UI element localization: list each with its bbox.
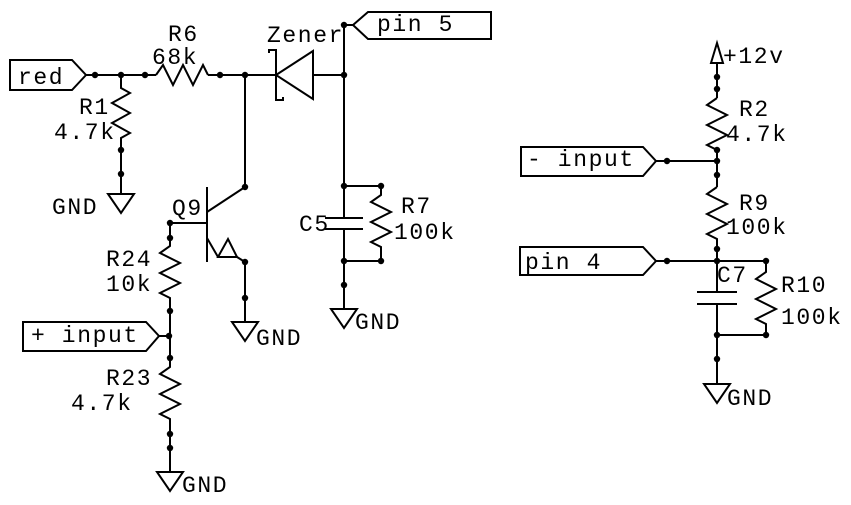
svg-text:GND: GND	[256, 326, 302, 352]
ground Q9 emitter	[232, 322, 302, 352]
node dot pin5 tip	[341, 22, 347, 28]
node junction -input rail	[714, 158, 720, 164]
node dot collector	[242, 184, 248, 190]
svg-text:R23: R23	[106, 366, 152, 392]
wire collector up	[244, 75, 246, 187]
diode zener D1	[267, 23, 344, 100]
svg-text:C7: C7	[717, 263, 748, 289]
wire pin5 rail	[343, 25, 345, 218]
node dot R7 bottom	[378, 258, 384, 264]
flag pin 5	[344, 12, 491, 39]
svg-text:+ input: + input	[31, 323, 139, 349]
power +12v	[711, 43, 785, 98]
ground C5	[331, 309, 401, 336]
node dot R6 left pin	[142, 72, 148, 78]
node junction pin4 rail	[714, 258, 720, 264]
ground R23	[157, 472, 228, 499]
svg-text:R9: R9	[739, 191, 770, 217]
capacitor C7	[697, 263, 748, 384]
resistor R1	[54, 75, 130, 194]
svg-text:4.7k: 4.7k	[54, 120, 116, 146]
wire C7 bottom to R10 bottom	[717, 334, 766, 336]
svg-text:pin 5: pin 5	[377, 12, 454, 38]
svg-text:GND: GND	[182, 473, 228, 499]
node junction R1 top	[118, 72, 124, 78]
node dot base junction	[167, 220, 173, 226]
node junction C5 bottom	[341, 258, 347, 264]
node junction C7 bottom	[714, 332, 720, 338]
svg-text:4.7k: 4.7k	[71, 391, 133, 417]
node dot emitter end	[242, 259, 248, 265]
ground R1	[52, 194, 134, 221]
node dot gnd pin C5	[341, 282, 347, 288]
node dot R10 top	[763, 258, 769, 264]
node junction zener anode	[341, 72, 347, 78]
svg-text:red: red	[18, 65, 64, 91]
svg-text:Q9: Q9	[172, 196, 203, 222]
wire red-to-zener	[86, 74, 276, 76]
svg-text:R1: R1	[79, 95, 110, 121]
node junction C5 top	[341, 183, 347, 189]
svg-text:R2: R2	[739, 97, 770, 123]
node dot gnd pin right	[714, 356, 720, 362]
node dot R6 right pin	[217, 72, 223, 78]
svg-text:100k: 100k	[394, 220, 456, 246]
resistor R9	[707, 187, 788, 292]
resistor R24	[106, 223, 180, 336]
svg-text:4.7k: 4.7k	[726, 122, 788, 148]
svg-text:- input: - input	[527, 147, 635, 173]
node dot R10 bottom	[763, 332, 769, 338]
transistor Q9	[170, 187, 245, 262]
resistor R7	[371, 186, 456, 261]
flag red	[10, 60, 86, 91]
wire emitter to gnd	[244, 262, 246, 322]
svg-text:GND: GND	[727, 386, 773, 412]
svg-text:+12v: +12v	[723, 44, 785, 70]
resistor R6	[152, 22, 208, 85]
resistor R23	[71, 336, 180, 472]
svg-text:100k: 100k	[726, 215, 788, 241]
ground right	[704, 384, 773, 412]
flag + input	[23, 322, 172, 351]
svg-text:R24: R24	[106, 247, 152, 273]
resistor R2	[707, 97, 788, 187]
wire C5 to R7 top	[344, 185, 381, 187]
resistor R10	[756, 261, 843, 335]
capacitor C5	[299, 212, 363, 238]
svg-text:GND: GND	[355, 310, 401, 336]
svg-text:pin 4: pin 4	[525, 250, 602, 276]
svg-text:R7: R7	[401, 194, 432, 220]
flag - input	[521, 147, 717, 176]
wire C5 gnd stub	[343, 229, 345, 309]
node junction zener-collector	[242, 72, 248, 78]
node dot gnd pin Q9	[242, 295, 248, 301]
svg-text:Zener: Zener	[267, 23, 344, 49]
node dot R24 top pin	[167, 235, 173, 241]
svg-text:10k: 10k	[106, 272, 152, 298]
flag pin 4	[520, 247, 766, 276]
wire C5 bottom to R7 bottom	[344, 260, 381, 262]
svg-text:GND: GND	[52, 195, 98, 221]
node dot red pin	[92, 72, 98, 78]
svg-text:100k: 100k	[781, 305, 843, 331]
svg-text:R10: R10	[781, 273, 827, 299]
node dot R7 top	[378, 183, 384, 189]
svg-text:C5: C5	[299, 212, 330, 238]
node dot R9 top pin	[714, 172, 720, 178]
svg-text:68k: 68k	[152, 45, 198, 71]
